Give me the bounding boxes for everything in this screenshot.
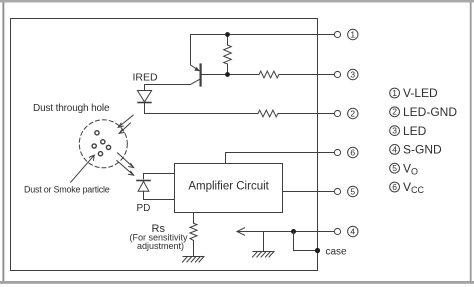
wire: Rs lower lead bbox=[193, 241, 195, 257]
wire: top resistor upper lead bbox=[227, 35, 229, 46]
svg-text:PD: PD bbox=[137, 203, 151, 214]
wire: resistor to pin 2 bbox=[278, 113, 335, 115]
legend item 5 Vo bbox=[390, 161, 418, 176]
arrowhead pointing left on S-GND line bbox=[237, 228, 245, 235]
wire: top resistor lower lead bbox=[227, 64, 229, 75]
pin number 2 bbox=[348, 108, 358, 118]
svg-text:2: 2 bbox=[350, 108, 355, 118]
wire: collector horizontal to IRED bbox=[145, 84, 191, 86]
outer frame left bar bbox=[3, 3, 5, 282]
svg-text:4: 4 bbox=[392, 144, 397, 154]
scattered light arrow 1 to PD bbox=[118, 153, 134, 168]
particle dot 5 bbox=[98, 152, 102, 156]
wire: Vo line to pin 5 bbox=[283, 191, 335, 193]
IRED cathode bar bbox=[138, 102, 151, 104]
wire: collector diagonal bbox=[191, 79, 201, 85]
svg-text:LED: LED bbox=[403, 124, 427, 138]
particle dot 1 bbox=[95, 131, 99, 135]
pin circle 3 bbox=[334, 71, 340, 77]
pin circle 6 bbox=[334, 149, 340, 155]
svg-text:V-LED: V-LED bbox=[403, 86, 438, 100]
pin circle 2 bbox=[334, 110, 340, 116]
wire: IRED cathode down bbox=[144, 103, 146, 114]
pin circle 4 bbox=[334, 228, 340, 234]
junction dot on V-LED rail bbox=[225, 32, 230, 37]
wire: LED-GND line to resistor (pin 2) bbox=[145, 113, 259, 115]
wire: ground stub from S-GND line bbox=[263, 232, 265, 252]
wire: IRED anode stub bbox=[144, 85, 146, 91]
pin circle 1 bbox=[334, 31, 340, 37]
resistor Rs (vertical) bbox=[190, 223, 197, 240]
IRED beam arrow 2 bbox=[119, 123, 130, 133]
svg-text:S-GND: S-GND bbox=[403, 143, 442, 157]
transistor Q1 emitter arrowhead bbox=[194, 67, 200, 71]
resistor R1 (bias, vertical) bbox=[224, 45, 232, 64]
outer frame right bar bbox=[470, 3, 472, 283]
junction dot case tap bbox=[291, 229, 296, 234]
wire: base line bbox=[201, 74, 259, 76]
junction dot on base line bbox=[225, 72, 230, 77]
scattered light arrow 2 to PD bbox=[117, 161, 134, 176]
svg-text:Amplifier Circuit: Amplifier Circuit bbox=[188, 181, 269, 193]
junction dot on case edge bbox=[315, 248, 320, 253]
device outline box bbox=[11, 19, 318, 271]
amplifier block U1 bbox=[175, 164, 283, 213]
pin number 5 bbox=[348, 186, 358, 196]
wire: PD upper loop bbox=[144, 174, 175, 179]
svg-text:1: 1 bbox=[392, 88, 397, 98]
wire: case tap horizontal bbox=[294, 250, 318, 252]
svg-text:3: 3 bbox=[350, 69, 355, 79]
legend item 2 LED-GND bbox=[390, 105, 458, 119]
ground symbol on S-GND line bbox=[253, 252, 275, 258]
svg-text:LED-GND: LED-GND bbox=[403, 105, 457, 119]
svg-text:Dust or Smoke particle: Dust or Smoke particle bbox=[24, 185, 110, 195]
dust particle pointer arrow bbox=[71, 155, 95, 182]
IRED beam arrow 1 bbox=[118, 115, 133, 127]
wire: case tap vertical bbox=[293, 232, 295, 251]
svg-text:6: 6 bbox=[392, 182, 397, 192]
photodiode PD cathode bar bbox=[137, 180, 150, 182]
svg-text:4: 4 bbox=[350, 226, 355, 236]
IRED diode triangle bbox=[137, 91, 151, 102]
resistor R2 (base line) bbox=[259, 71, 279, 78]
wire: PD lower loop bbox=[144, 191, 175, 199]
legend item 4 S-GND bbox=[390, 143, 442, 157]
pin number 4 bbox=[348, 226, 358, 236]
particle dot 2 bbox=[101, 140, 105, 144]
particle dot 4 bbox=[106, 145, 110, 149]
legend item 1 V-LED bbox=[390, 86, 438, 100]
wire: V-LED rail (pin 1) bbox=[191, 34, 335, 36]
pin number 1 bbox=[348, 29, 358, 39]
wire: emitter diagonal into transistor bbox=[191, 65, 199, 70]
wire: emitter vertical bbox=[190, 35, 192, 66]
particle dot 3 bbox=[92, 144, 96, 148]
svg-text:2: 2 bbox=[392, 107, 397, 117]
legend item 6 Vcc bbox=[390, 180, 425, 195]
svg-text:1: 1 bbox=[350, 29, 355, 39]
svg-text:case: case bbox=[326, 247, 348, 258]
outer frame bottom bar bbox=[0, 281, 474, 284]
wire: Vcc line to pin 6 bbox=[226, 152, 335, 154]
pin number 3 bbox=[348, 69, 358, 79]
wire: Rs upper lead from amplifier bottom bbox=[193, 213, 195, 224]
pin circle 5 bbox=[334, 188, 340, 194]
svg-text:5: 5 bbox=[350, 186, 355, 196]
pin number 6 bbox=[348, 147, 358, 157]
legend item 3 LED bbox=[390, 124, 427, 138]
wire: S-GND line (pin 4) bbox=[237, 231, 335, 233]
resistor R3 (LED-GND line) bbox=[258, 110, 278, 117]
dust through hole dashed circle bbox=[79, 120, 127, 168]
svg-text:IRED: IRED bbox=[133, 72, 159, 84]
svg-text:adjustment): adjustment) bbox=[137, 241, 184, 251]
svg-text:Dust through hole: Dust through hole bbox=[33, 103, 110, 114]
wire: resistor to pin 3 bbox=[279, 74, 335, 76]
svg-text:3: 3 bbox=[392, 126, 397, 136]
transistor Q1 base bar bbox=[200, 65, 202, 86]
wire: Vcc stub from amplifier top bbox=[225, 153, 227, 164]
svg-text:5: 5 bbox=[392, 163, 397, 173]
outer frame top bar bbox=[0, 0, 474, 3]
svg-text:6: 6 bbox=[350, 147, 355, 157]
photodiode PD triangle bbox=[138, 181, 149, 191]
ground symbol under Rs bbox=[183, 257, 205, 263]
